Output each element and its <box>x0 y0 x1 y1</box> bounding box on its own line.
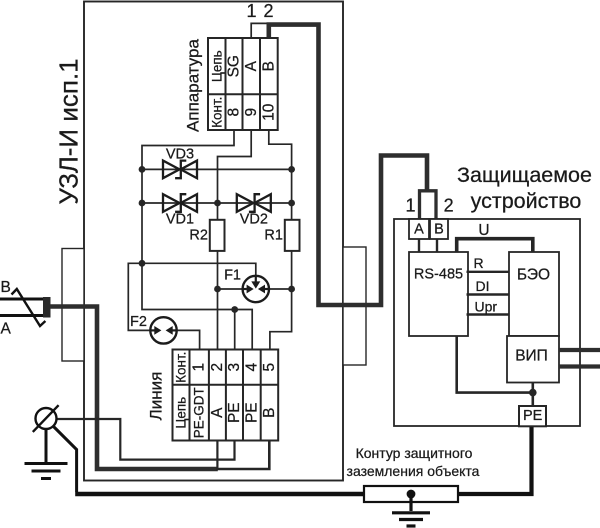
wire electrode to ground bus <box>53 426 77 493</box>
svg-text:PE: PE <box>243 402 260 423</box>
twisted pair slash <box>12 289 46 326</box>
left cable gland <box>62 249 84 362</box>
svg-text:B: B <box>1 279 11 296</box>
svg-text:R: R <box>474 255 484 271</box>
svg-text:3: 3 <box>226 363 243 372</box>
ground bus wire right <box>457 426 532 494</box>
svg-text:SG: SG <box>226 55 243 77</box>
svg-text:1: 1 <box>246 1 256 21</box>
earthing bar Контур <box>364 486 458 502</box>
signal DI <box>467 278 510 295</box>
terminal A <box>409 219 429 239</box>
svg-text:PE-GDT: PE-GDT <box>192 387 207 438</box>
wire ВИП output 2 <box>559 364 600 368</box>
wire ВИП to PE <box>531 383 534 407</box>
svg-text:B: B <box>434 222 444 238</box>
suppressor VD1 <box>163 194 197 212</box>
svg-text:DI: DI <box>476 278 490 294</box>
cable pair to protected device <box>269 25 427 305</box>
node on bar <box>407 490 416 499</box>
svg-text:Цепь: Цепь <box>209 50 224 82</box>
svg-text:R1: R1 <box>264 227 283 243</box>
cable split to terminals A B <box>420 191 437 219</box>
svg-text:VD1: VD1 <box>166 212 194 228</box>
svg-text:устройство: устройство <box>471 189 582 213</box>
svg-text:PE: PE <box>523 408 543 424</box>
wire PE terminal 3 to earth electrode <box>57 419 235 460</box>
svg-text:УЗЛ-И исп.1: УЗЛ-И исп.1 <box>54 58 84 204</box>
svg-text:А: А <box>414 222 424 238</box>
svg-text:4: 4 <box>243 363 260 372</box>
wire SG to left rail and PE rail <box>142 130 252 350</box>
svg-text:R2: R2 <box>189 227 208 243</box>
svg-text:Линия: Линия <box>147 372 166 421</box>
node left rail VD1 <box>139 200 146 207</box>
node F1 left <box>214 286 221 293</box>
svg-text:5: 5 <box>261 363 278 372</box>
svg-text:Контур защитного: Контур защитного <box>356 445 473 461</box>
wire F2 left bracket <box>128 263 151 330</box>
ground symbol bottom <box>392 494 430 526</box>
cable shield cap <box>43 297 51 318</box>
svg-text:заземления объекта: заземления объекта <box>347 463 480 479</box>
svg-text:А: А <box>209 407 226 418</box>
block RS-485 U1 <box>409 252 468 336</box>
right cable gland <box>343 247 366 365</box>
wire A line <box>218 130 252 350</box>
wire F1 top electrode <box>142 263 256 276</box>
node left rail F1 F2 branch <box>139 260 146 267</box>
node right rail VD2 <box>288 200 295 207</box>
label Контур защитного заземления объекта <box>347 445 480 479</box>
protected device box <box>394 219 580 426</box>
terminal block Аппаратура <box>208 38 278 130</box>
arrester F2 <box>150 317 176 343</box>
wire F2 to terminal 1 <box>176 330 200 349</box>
wire PE to terminal 3 <box>234 310 236 350</box>
svg-text:Аппаратура: Аппаратура <box>184 38 203 131</box>
node <box>529 389 537 397</box>
svg-text:VD2: VD2 <box>240 212 268 228</box>
svg-text:VD3: VD3 <box>166 147 194 163</box>
svg-text:8: 8 <box>226 108 243 117</box>
signal Upr <box>467 299 510 315</box>
wire F1 row left <box>218 288 244 290</box>
ground symbol left <box>25 429 68 479</box>
suppressor VD3 <box>163 161 197 179</box>
svg-text:А: А <box>1 321 12 338</box>
svg-text:F2: F2 <box>130 314 147 330</box>
wire VD1 VD2 row <box>142 202 292 204</box>
svg-text:Конт.: Конт. <box>209 97 224 128</box>
wire terminal A to RS-485 <box>418 239 420 252</box>
line conductor B <box>0 298 47 301</box>
wire F1 row right <box>268 288 292 290</box>
wire terminal1 A to cable <box>251 23 266 38</box>
enclosure box УЗЛ-И исп.1 <box>84 2 343 481</box>
earth electrode <box>33 405 59 432</box>
resistor R2 <box>210 220 225 251</box>
svg-text:F1: F1 <box>224 268 241 284</box>
cable pair into box <box>50 307 218 470</box>
block ВИП <box>507 336 559 383</box>
svg-text:2: 2 <box>209 363 226 372</box>
terminal block Линия <box>173 350 279 441</box>
svg-text:Конт.: Конт. <box>174 352 189 383</box>
label Защищаемое устройство <box>457 163 592 213</box>
svg-text:1: 1 <box>405 196 415 216</box>
wire RS-485 ground <box>457 336 531 393</box>
svg-text:1: 1 <box>191 363 208 372</box>
ground bus wire left <box>75 492 365 497</box>
svg-text:RS-485: RS-485 <box>414 267 463 283</box>
terminal B <box>430 219 448 239</box>
svg-text:А: А <box>243 60 260 71</box>
node left rail VD3 <box>139 166 146 173</box>
svg-text:Защищаемое: Защищаемое <box>457 163 592 187</box>
svg-text:ВИП: ВИП <box>515 348 548 365</box>
svg-text:2: 2 <box>263 1 273 21</box>
terminal PE <box>519 406 546 426</box>
wire B line right rail <box>269 130 292 350</box>
node PE rail terminal 3 <box>231 306 238 313</box>
svg-text:U: U <box>478 222 489 239</box>
arrester F1 <box>243 276 269 302</box>
wire ВИП output 1 <box>559 348 600 352</box>
svg-text:Upr: Upr <box>475 299 498 315</box>
svg-text:Цепь: Цепь <box>174 397 189 429</box>
svg-text:10: 10 <box>261 103 278 121</box>
wire terminal B to RS-485 <box>436 239 438 252</box>
wire U supply <box>457 239 533 252</box>
block БЭО <box>509 252 559 336</box>
svg-text:9: 9 <box>243 108 260 117</box>
wire A to terminal 2 <box>216 441 218 471</box>
node F1 right <box>288 286 295 293</box>
resistor R1 <box>285 220 300 251</box>
node right rail VD3 <box>288 166 295 173</box>
suppressor VD2 <box>237 194 271 212</box>
svg-text:B: B <box>261 61 278 71</box>
svg-text:B: B <box>261 408 278 418</box>
node VD1 VD2 junction <box>214 200 221 207</box>
svg-text:БЭО: БЭО <box>517 267 550 284</box>
wire B pair tail to terminal 5 <box>217 441 270 470</box>
svg-text:PE: PE <box>226 402 243 423</box>
svg-text:2: 2 <box>444 196 454 216</box>
line conductor A <box>0 314 47 317</box>
signal R <box>467 255 510 272</box>
wire VD3 row <box>142 168 292 170</box>
